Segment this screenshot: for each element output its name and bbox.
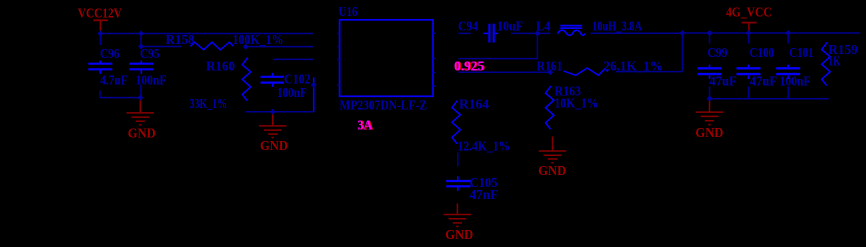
svg-text:47uF: 47uF	[709, 75, 737, 90]
svg-text:100nF: 100nF	[277, 86, 307, 101]
svg-text:GND: GND	[538, 164, 566, 179]
svg-text:4.7uF: 4.7uF	[100, 74, 128, 89]
svg-text:10uH_3.8A: 10uH_3.8A	[592, 19, 643, 34]
svg-text:47uF: 47uF	[750, 75, 778, 90]
svg-text:C99: C99	[707, 46, 727, 61]
svg-text:C96: C96	[100, 47, 120, 62]
svg-text:R160: R160	[206, 59, 235, 74]
svg-text:C100: C100	[750, 46, 775, 61]
svg-text:47nF: 47nF	[470, 188, 499, 203]
svg-text:VCC12V: VCC12V	[78, 6, 122, 21]
svg-text:GND: GND	[128, 126, 156, 141]
svg-text:100nF: 100nF	[780, 75, 811, 90]
svg-text:10K_1%: 10K_1%	[555, 97, 599, 112]
svg-text:C101: C101	[789, 46, 814, 61]
svg-text:100K_1%: 100K_1%	[233, 33, 284, 48]
svg-text:GND: GND	[445, 228, 473, 242]
svg-text:R164: R164	[459, 97, 489, 112]
svg-text:10uF: 10uF	[497, 20, 523, 35]
svg-text:12.4K_1%: 12.4K_1%	[458, 139, 511, 154]
svg-text:100nF: 100nF	[136, 74, 167, 89]
svg-text:U16: U16	[339, 5, 358, 20]
svg-text:3A: 3A	[357, 119, 373, 134]
svg-text:GND: GND	[695, 126, 723, 141]
svg-text:33K_1%: 33K_1%	[190, 97, 228, 112]
svg-text:R158: R158	[166, 33, 195, 48]
svg-text:MP2307DN-LF-Z: MP2307DN-LF-Z	[340, 98, 428, 113]
svg-text:L4: L4	[536, 20, 550, 35]
svg-text:1K: 1K	[828, 55, 840, 70]
svg-text:C95: C95	[140, 47, 160, 62]
svg-text:C94: C94	[458, 20, 478, 35]
svg-text:GND: GND	[260, 139, 288, 154]
svg-text:R161: R161	[537, 59, 563, 74]
svg-text:4G_VCC: 4G_VCC	[726, 6, 772, 21]
